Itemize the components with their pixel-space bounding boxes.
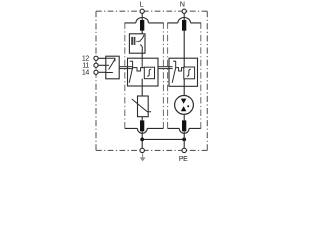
contact 14 stub [106,72,113,74]
svg-text:11: 11 [82,63,89,70]
disconnector L impulse box [144,67,154,79]
contact blade L top [140,20,144,31]
wire gdt to bottom contact [183,114,185,120]
terminal L [140,9,144,13]
disconnector L pivot [132,61,134,68]
module 1 right side (dash-dot) [162,23,164,129]
junction dot L [140,138,144,142]
module 1 bottom edge with plug arc [125,128,164,133]
wire 12 [98,57,106,59]
disconnector L wave [133,68,145,71]
terminal N [182,9,186,13]
equipotential wire [142,138,184,140]
contact 11 stub [106,64,109,66]
disconnector L blade [129,68,132,83]
module 1 top edge with plug arc [125,17,164,22]
module 1 left side (dash-dot) [124,23,126,129]
module 2 top edge with plug arc [168,17,201,22]
terminal 12 [94,56,98,60]
disconnector N tick [173,60,176,62]
contact 12 stub [106,58,115,61]
disconnector N entry wire [183,31,185,67]
svg-text:12: 12 [82,55,90,62]
wire to junction L [141,131,143,148]
terminal 11 [94,63,98,67]
module 2 left side (dash-dot) [167,23,169,129]
wire varistor to bottom contact [141,117,143,121]
PE terminal [182,148,186,152]
earth terminal [140,148,144,152]
disconnector L exit wire [141,79,143,96]
gdt upper electrode [181,99,187,104]
varistor [138,96,149,117]
disconnector N pivot [175,61,177,68]
disconnector L tick [130,60,133,62]
disconnector N exit wire [183,79,185,96]
gas discharge tube [175,96,194,115]
monitoring device box [129,34,145,53]
disconnector box N [169,58,198,86]
wire 14 [98,71,106,73]
module 2 right side (dash-dot) [200,23,202,129]
contact blade N bottom [182,120,186,131]
contact blade N top [182,20,186,31]
disconnector box L [128,58,159,86]
disconnector N blade [172,68,176,83]
contact blade L bottom [140,120,144,131]
wire monitor box to disconnector [141,49,143,58]
wire to junction N [183,131,185,148]
svg-text:N: N [180,0,185,9]
wire N terminal to contact [183,13,185,20]
wire contact to monitor box [141,31,143,35]
svg-text:14: 14 [82,70,90,77]
wire 11 [98,64,106,66]
gdt gas dot [187,105,189,107]
earth arrow [140,153,146,161]
varistor diagonal [132,99,151,112]
enclosure dash-dot border [96,11,207,150]
changeover blade [109,59,116,70]
module 2 bottom edge with plug arc [168,128,201,133]
monitoring switch curve [140,35,144,41]
disconnector N wave [176,68,184,71]
wire L terminal to contact [141,13,143,20]
disconnector L entry wire [141,58,143,67]
disconnector N impulse box [184,67,195,79]
mechanical linkage double line [119,66,133,68]
svg-text:PE: PE [179,156,188,163]
terminal 14 [94,70,98,74]
junction dot N [182,138,186,142]
monitoring thermal element [131,37,133,45]
gdt lower electrode [181,106,187,111]
svg-text:L: L [140,0,144,9]
monitoring actuation arrow [138,40,141,42]
changeover contact box [106,56,119,79]
